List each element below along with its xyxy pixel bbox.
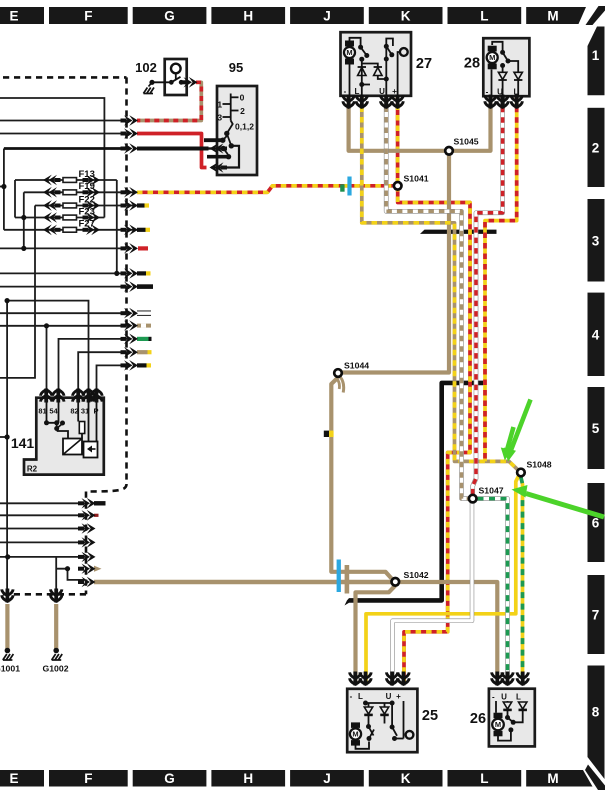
svg-text:G1001: G1001 bbox=[0, 664, 20, 674]
svg-text:M: M bbox=[547, 9, 558, 24]
svg-text:54: 54 bbox=[49, 407, 58, 416]
svg-text:5: 5 bbox=[592, 421, 600, 436]
svg-text:8: 8 bbox=[592, 704, 600, 719]
svg-text:S1044: S1044 bbox=[344, 361, 369, 371]
svg-text:3: 3 bbox=[592, 233, 600, 248]
svg-text:-: - bbox=[492, 693, 495, 702]
svg-text:L: L bbox=[480, 771, 488, 786]
svg-text:141: 141 bbox=[11, 435, 35, 451]
svg-text:-: - bbox=[350, 692, 353, 701]
svg-text:S1045: S1045 bbox=[454, 137, 479, 147]
svg-text:26: 26 bbox=[470, 711, 486, 727]
svg-text:G1002: G1002 bbox=[42, 664, 68, 674]
svg-text:J: J bbox=[323, 771, 331, 786]
svg-text:3: 3 bbox=[217, 113, 222, 123]
svg-text:S1048: S1048 bbox=[527, 460, 552, 470]
svg-text:4: 4 bbox=[592, 327, 600, 342]
svg-text:M: M bbox=[495, 720, 501, 729]
svg-text:R2: R2 bbox=[27, 465, 38, 474]
svg-text:L: L bbox=[358, 692, 363, 701]
svg-text:M: M bbox=[547, 771, 558, 786]
svg-text:1: 1 bbox=[217, 100, 222, 110]
svg-text:+: + bbox=[396, 692, 401, 701]
svg-text:S1042: S1042 bbox=[404, 570, 429, 580]
svg-text:M: M bbox=[352, 730, 358, 739]
svg-text:-: - bbox=[344, 87, 347, 96]
svg-text:L: L bbox=[355, 87, 360, 96]
svg-text:E: E bbox=[9, 771, 18, 786]
svg-text:E: E bbox=[9, 9, 18, 24]
svg-text:U: U bbox=[386, 692, 392, 701]
svg-text:F: F bbox=[84, 771, 92, 786]
svg-text:0: 0 bbox=[240, 93, 245, 103]
svg-text:L: L bbox=[480, 9, 488, 24]
svg-text:K: K bbox=[401, 771, 411, 786]
svg-text:25: 25 bbox=[422, 708, 438, 724]
svg-text:81: 81 bbox=[38, 407, 46, 416]
svg-text:-: - bbox=[486, 88, 489, 97]
svg-text:H: H bbox=[243, 9, 253, 24]
svg-text:27: 27 bbox=[416, 56, 432, 72]
svg-text:2: 2 bbox=[240, 106, 245, 116]
svg-text:U: U bbox=[379, 87, 385, 96]
svg-text:U: U bbox=[501, 693, 507, 702]
svg-text:1: 1 bbox=[592, 48, 600, 63]
svg-text:G: G bbox=[164, 771, 175, 786]
svg-text:M: M bbox=[489, 53, 495, 62]
svg-text:S1047: S1047 bbox=[479, 486, 504, 496]
svg-text:G: G bbox=[164, 9, 175, 24]
svg-text:K: K bbox=[401, 9, 411, 24]
svg-text:M: M bbox=[346, 48, 352, 57]
svg-text:S1041: S1041 bbox=[404, 174, 429, 184]
svg-text:102: 102 bbox=[135, 60, 157, 75]
svg-text:F: F bbox=[84, 9, 92, 24]
svg-text:0,1,2: 0,1,2 bbox=[235, 122, 254, 132]
svg-text:H: H bbox=[243, 771, 253, 786]
svg-text:95: 95 bbox=[229, 60, 243, 75]
svg-text:L: L bbox=[516, 693, 521, 702]
svg-text:J: J bbox=[323, 9, 331, 24]
svg-text:7: 7 bbox=[592, 608, 600, 623]
svg-text:28: 28 bbox=[464, 56, 480, 72]
svg-text:2: 2 bbox=[592, 140, 600, 155]
